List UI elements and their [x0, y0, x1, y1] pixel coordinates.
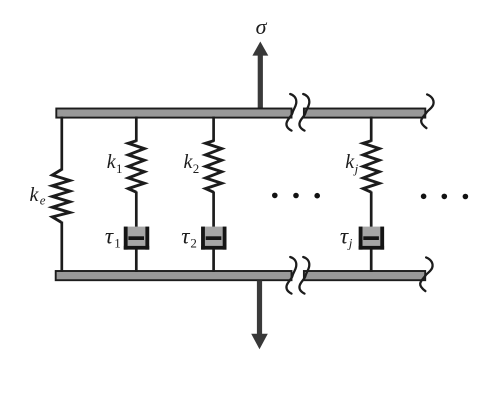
dashpot tau_j [359, 227, 384, 250]
svg-text:τ: τ [340, 224, 349, 249]
force arrow sigma top [252, 42, 268, 110]
wire column 1 bottom [135, 249, 138, 272]
break mark bottom bar right end [420, 257, 432, 291]
spring k_2 [206, 141, 222, 193]
svg-text:2: 2 [190, 236, 197, 251]
break mark top bar right end [421, 94, 433, 128]
ellipsis dots middle [272, 193, 320, 199]
bottom bar segment 2 [304, 271, 425, 280]
dashpot tau_1 [124, 227, 149, 250]
label tau_j [340, 224, 353, 251]
top bar segment 2 [304, 109, 425, 118]
wire column j top [370, 117, 373, 142]
bottom bar segment 1 [56, 271, 292, 280]
wire column 2 top [212, 117, 215, 142]
ellipsis dots right [421, 194, 468, 200]
wire k_e bottom [60, 222, 63, 273]
svg-text:τ: τ [181, 224, 190, 249]
svg-text:k: k [30, 184, 40, 206]
break mark top-right [299, 94, 309, 131]
wire column 1 rod [135, 192, 138, 239]
label tau_2 [181, 224, 197, 251]
wire k_e top [60, 117, 63, 171]
spring k_j [363, 141, 379, 193]
spring k_e [52, 170, 70, 223]
svg-text:τ: τ [105, 224, 114, 249]
svg-text:1: 1 [114, 236, 121, 251]
svg-text:2: 2 [193, 161, 200, 176]
label k_2 [184, 151, 200, 176]
dashpot tau_2 [201, 227, 226, 250]
wire column j rod [370, 192, 373, 239]
force arrow sigma bottom [251, 281, 268, 350]
wire column 1 top [135, 117, 138, 142]
break mark top-left [286, 94, 296, 131]
svg-text:1: 1 [116, 161, 123, 176]
label k_e [30, 184, 46, 208]
svg-text:σ: σ [256, 14, 268, 39]
wire column 2 rod [212, 192, 215, 239]
wire column j bottom [370, 249, 373, 272]
break mark bottom-left [286, 257, 296, 294]
label tau_1 [105, 224, 121, 251]
spring k_1 [128, 141, 144, 193]
wire column 2 bottom [212, 249, 215, 272]
break mark bottom-right [299, 257, 309, 294]
top bar segment 1 [56, 109, 291, 118]
label k_j [345, 151, 358, 176]
label k_1 [107, 151, 123, 176]
svg-text:e: e [40, 193, 46, 208]
